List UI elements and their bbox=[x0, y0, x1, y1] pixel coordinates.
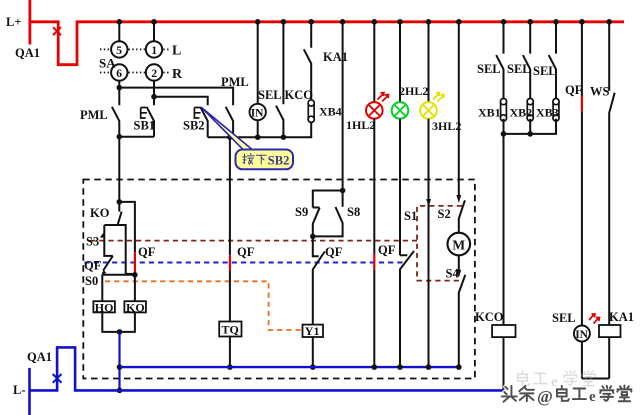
wire join bottom right bbox=[582, 378, 609, 380]
contact SB2 pushbutton bbox=[200, 107, 207, 137]
svg-text:e: e bbox=[589, 389, 596, 405]
node bus/KA1 bbox=[308, 19, 314, 25]
QA1 x marker bbox=[53, 27, 61, 35]
node B dot bbox=[151, 94, 157, 100]
contact S8 bbox=[313, 191, 343, 237]
main watermark 头条@电工e学堂 white halo bbox=[502, 385, 632, 401]
node bus/XB1 bbox=[501, 19, 507, 25]
node bus/QF bbox=[579, 19, 585, 25]
wire bus to S2 bbox=[458, 22, 460, 197]
wire bus to 2HL2 bbox=[399, 22, 401, 102]
coil HQ bbox=[93, 301, 115, 312]
svg-text:SB2: SB2 bbox=[268, 153, 290, 167]
coil KO bbox=[124, 301, 145, 312]
node S0 junction bbox=[132, 272, 138, 278]
contact S2 arrow bbox=[456, 195, 461, 203]
node S9/S8 rejoin bbox=[310, 234, 316, 240]
wire TQ to bus bbox=[229, 337, 231, 368]
svg-text:HQ: HQ bbox=[95, 300, 114, 314]
node bus/XB2 bbox=[527, 19, 533, 25]
QA1 x marker bottom bbox=[53, 374, 62, 383]
connector XB4 bbox=[308, 102, 314, 121]
breaker QA1 bottom step bbox=[30, 347, 504, 390]
contact S4 blade bbox=[459, 275, 466, 366]
wire 2 down to node B bbox=[153, 80, 155, 97]
wire S0 junction bbox=[102, 274, 135, 276]
svg-text:S9: S9 bbox=[295, 205, 308, 219]
SA circle 6 bbox=[111, 64, 127, 80]
SA circle 2 bbox=[146, 64, 162, 80]
wire TQ column bbox=[229, 137, 231, 321]
brown dashed link line bbox=[90, 240, 417, 242]
svg-text:S1: S1 bbox=[404, 209, 417, 223]
svg-text:QF: QF bbox=[325, 245, 343, 259]
svg-text:QF: QF bbox=[378, 243, 396, 257]
node bus/3HL2 bbox=[426, 19, 432, 25]
svg-text:XB4: XB4 bbox=[319, 105, 342, 119]
dotted link row2 bbox=[100, 72, 170, 74]
indicator IN (SEL) bbox=[250, 104, 266, 120]
contact SEL 1 bbox=[496, 22, 503, 99]
svg-text:1HL2: 1HL2 bbox=[346, 118, 375, 132]
svg-text:XB2: XB2 bbox=[510, 106, 533, 120]
svg-text:2: 2 bbox=[151, 68, 157, 80]
node A dot bbox=[117, 85, 123, 91]
wire QF column bbox=[581, 22, 583, 326]
junction coils join bbox=[117, 329, 123, 335]
node bus/KCO bbox=[281, 19, 287, 25]
wire 6 down to node A bbox=[118, 80, 120, 88]
wire SEL column bbox=[257, 22, 259, 104]
L- rail bbox=[28, 368, 31, 415]
energized segment QF bbox=[581, 96, 583, 111]
svg-text:S4: S4 bbox=[446, 267, 460, 281]
svg-text:SEL: SEL bbox=[477, 62, 501, 76]
wire bus to 3HL2 bbox=[428, 22, 430, 102]
blue dashed link line bbox=[85, 262, 405, 264]
node bus/1HL2 bbox=[372, 19, 378, 25]
svg-text:QA1: QA1 bbox=[27, 350, 52, 364]
lamp 3HL2 yellow bbox=[420, 102, 437, 119]
svg-text:2HL2: 2HL2 bbox=[399, 84, 428, 98]
wire bottom rail SB2..XB4 bbox=[208, 136, 313, 138]
wire Y1 to bus bbox=[312, 337, 314, 367]
indicator SEL(IN) bottom bbox=[574, 326, 590, 342]
connector XB3 bbox=[553, 100, 559, 119]
svg-text:M: M bbox=[452, 237, 465, 252]
svg-text:SEL: SEL bbox=[552, 311, 576, 325]
svg-text:R: R bbox=[172, 67, 183, 82]
junction TQ/bus bbox=[227, 364, 233, 370]
contact PML left bbox=[112, 88, 119, 137]
wire 2HL2 column down bbox=[399, 119, 401, 256]
wire PML-left/SB1 bottom join bbox=[119, 136, 154, 138]
contact PML right bbox=[226, 107, 233, 137]
node bus/2HL2 bbox=[397, 19, 403, 25]
node bus/SEL bbox=[255, 19, 261, 25]
node S9/S8 split bbox=[340, 188, 346, 194]
svg-text:SEL: SEL bbox=[507, 62, 531, 76]
wire M to S4 bbox=[458, 255, 460, 271]
junction KCO rail bbox=[281, 134, 287, 140]
svg-text:3HL2: 3HL2 bbox=[432, 119, 461, 133]
wire 3HL2 column down bbox=[428, 119, 430, 367]
node bus/S9S8 bbox=[340, 19, 346, 25]
svg-text:KA1: KA1 bbox=[323, 50, 348, 64]
contact WS bbox=[609, 22, 615, 325]
junction XB1 net bbox=[501, 131, 507, 137]
svg-text:QF: QF bbox=[565, 83, 583, 97]
coil KCO bbox=[492, 325, 515, 337]
lamp 1HL2 red bbox=[366, 102, 383, 119]
wire 1 to bus bbox=[153, 22, 155, 42]
svg-text:S3: S3 bbox=[86, 235, 99, 249]
callout pointer bbox=[202, 108, 264, 159]
contact QF (2HL2 column) bbox=[400, 251, 414, 367]
svg-text:IN: IN bbox=[575, 329, 588, 341]
wire down to HQ bbox=[101, 275, 103, 301]
svg-text:PML: PML bbox=[80, 108, 108, 122]
wires coils to join bbox=[102, 312, 135, 332]
wire join to bypass dot bbox=[126, 273, 135, 275]
wire 1HL2 column down bbox=[373, 119, 375, 367]
junction drop/inner bus bbox=[117, 364, 123, 370]
svg-text:S0: S0 bbox=[85, 274, 98, 288]
svg-text:KA1: KA1 bbox=[609, 310, 634, 324]
contact KA1 bbox=[304, 22, 311, 99]
contact S9 bbox=[313, 208, 320, 237]
contact QF blade with arrow bbox=[103, 256, 113, 271]
node bus/WS bbox=[606, 19, 612, 25]
svg-text:1: 1 bbox=[151, 45, 157, 57]
wire node A to PML right bbox=[119, 88, 233, 106]
coil KA1 bbox=[599, 325, 621, 337]
contact S4 arrow bbox=[456, 270, 461, 278]
breaker QA1 top step bbox=[30, 22, 624, 65]
contact S2 blade bbox=[459, 200, 465, 232]
SA circle 5 bbox=[111, 41, 127, 57]
svg-text:SB2: SB2 bbox=[183, 119, 205, 133]
node bus/motor branch bbox=[456, 19, 462, 25]
svg-text:XB1: XB1 bbox=[478, 106, 501, 120]
wire 5 to bus bbox=[118, 22, 120, 42]
contact SB1 pushbutton bbox=[147, 97, 154, 137]
wire XB4 to rail bbox=[310, 122, 312, 138]
SA circle 1 bbox=[146, 41, 162, 57]
wire bypass to KO branch bbox=[119, 202, 135, 252]
junction XB2 net bbox=[527, 131, 533, 137]
callout balloon bbox=[236, 150, 294, 170]
wire node B to SB2 top bbox=[154, 97, 208, 106]
junction 2HL2/bus bbox=[397, 364, 403, 370]
svg-text:S8: S8 bbox=[347, 205, 360, 219]
svg-text:XB3: XB3 bbox=[536, 106, 559, 120]
L+ rail bbox=[28, 0, 31, 45]
wires XB bottoms join bbox=[504, 119, 557, 134]
faint watermark bbox=[518, 370, 595, 390]
energized segment bypass QF bbox=[134, 252, 136, 274]
svg-text:@: @ bbox=[537, 387, 553, 406]
connector XB2 bbox=[527, 100, 533, 119]
main watermark 头条@电工e学堂 bbox=[502, 386, 534, 402]
wire KCO coil column bbox=[503, 134, 505, 325]
svg-text:SEL: SEL bbox=[258, 88, 282, 102]
brown dashed rect S2/M/S4 bbox=[417, 206, 462, 281]
blue drop to buses bbox=[118, 332, 120, 391]
junction motor/bus bbox=[456, 364, 462, 370]
node KO branch split bbox=[117, 199, 123, 205]
junction Y1/bus bbox=[310, 364, 316, 370]
contact S1 (plug arrow) bbox=[428, 190, 430, 199]
contact KCO bbox=[276, 22, 283, 137]
motor M bbox=[448, 233, 471, 256]
svg-text:SB1: SB1 bbox=[134, 119, 156, 133]
contact SEL 2 bbox=[523, 22, 530, 99]
svg-text:SEL: SEL bbox=[533, 64, 557, 78]
svg-text:QF: QF bbox=[138, 245, 156, 259]
wire S9S8 column upper bbox=[342, 22, 344, 191]
svg-text:L: L bbox=[172, 44, 181, 59]
svg-text:KO: KO bbox=[90, 206, 110, 220]
svg-text:QF: QF bbox=[84, 259, 102, 273]
lamp 2HL2 green bbox=[392, 102, 409, 119]
wire from SB group into box bbox=[118, 137, 120, 202]
contact QF (Y1 column) bbox=[313, 236, 325, 324]
svg-text:S2: S2 bbox=[438, 207, 451, 221]
junction IN rail bbox=[255, 134, 261, 140]
svg-text:QF: QF bbox=[237, 245, 255, 259]
node bus/SA1 bbox=[151, 19, 157, 25]
svg-text:Y1: Y1 bbox=[305, 324, 320, 338]
junction 1HL2/bus bbox=[372, 364, 378, 370]
junction drop/L- bus bbox=[117, 388, 123, 394]
svg-text:L+: L+ bbox=[6, 15, 21, 29]
svg-text:SA: SA bbox=[99, 56, 116, 71]
svg-text:L-: L- bbox=[13, 383, 26, 397]
junction SB2/TQ column bbox=[227, 134, 233, 140]
connector XB1 bbox=[501, 100, 507, 119]
contact SEL 3 bbox=[549, 22, 556, 99]
wire bus to 1HL2 bbox=[373, 22, 375, 102]
contact QF closed (TQ column) bbox=[229, 255, 231, 270]
orange dashed link S0-Y1 bbox=[105, 281, 303, 330]
svg-text:TQ: TQ bbox=[222, 322, 239, 336]
svg-text:PML: PML bbox=[221, 75, 249, 89]
wire bypass down to KO coil bbox=[134, 275, 136, 301]
contact KO bbox=[118, 202, 122, 225]
coil Y1 bbox=[303, 325, 324, 337]
svg-text:QA1: QA1 bbox=[15, 46, 40, 60]
wire jog under KO bbox=[104, 225, 125, 274]
node bus/SA5 bbox=[117, 19, 123, 25]
switch S3 bracket bbox=[104, 225, 113, 256]
junction 3HL2/bus bbox=[426, 364, 432, 370]
wire IN to rail bbox=[257, 120, 259, 137]
junction PML/SB1 bottom bbox=[117, 134, 123, 140]
coil TQ bbox=[219, 322, 241, 337]
svg-text:5: 5 bbox=[116, 45, 122, 57]
svg-text:IN: IN bbox=[251, 108, 264, 120]
wire split to S9 bbox=[313, 191, 343, 208]
node bus/XB3 bbox=[553, 19, 559, 25]
svg-text:KCO: KCO bbox=[475, 310, 504, 324]
callout text 按下SB2 bbox=[243, 153, 267, 164]
dotted link row1 bbox=[100, 48, 170, 50]
svg-text:KO: KO bbox=[126, 300, 145, 314]
svg-text:6: 6 bbox=[116, 68, 122, 80]
energized segment 1HL2 column bbox=[373, 254, 375, 269]
svg-text:WS: WS bbox=[590, 85, 610, 99]
